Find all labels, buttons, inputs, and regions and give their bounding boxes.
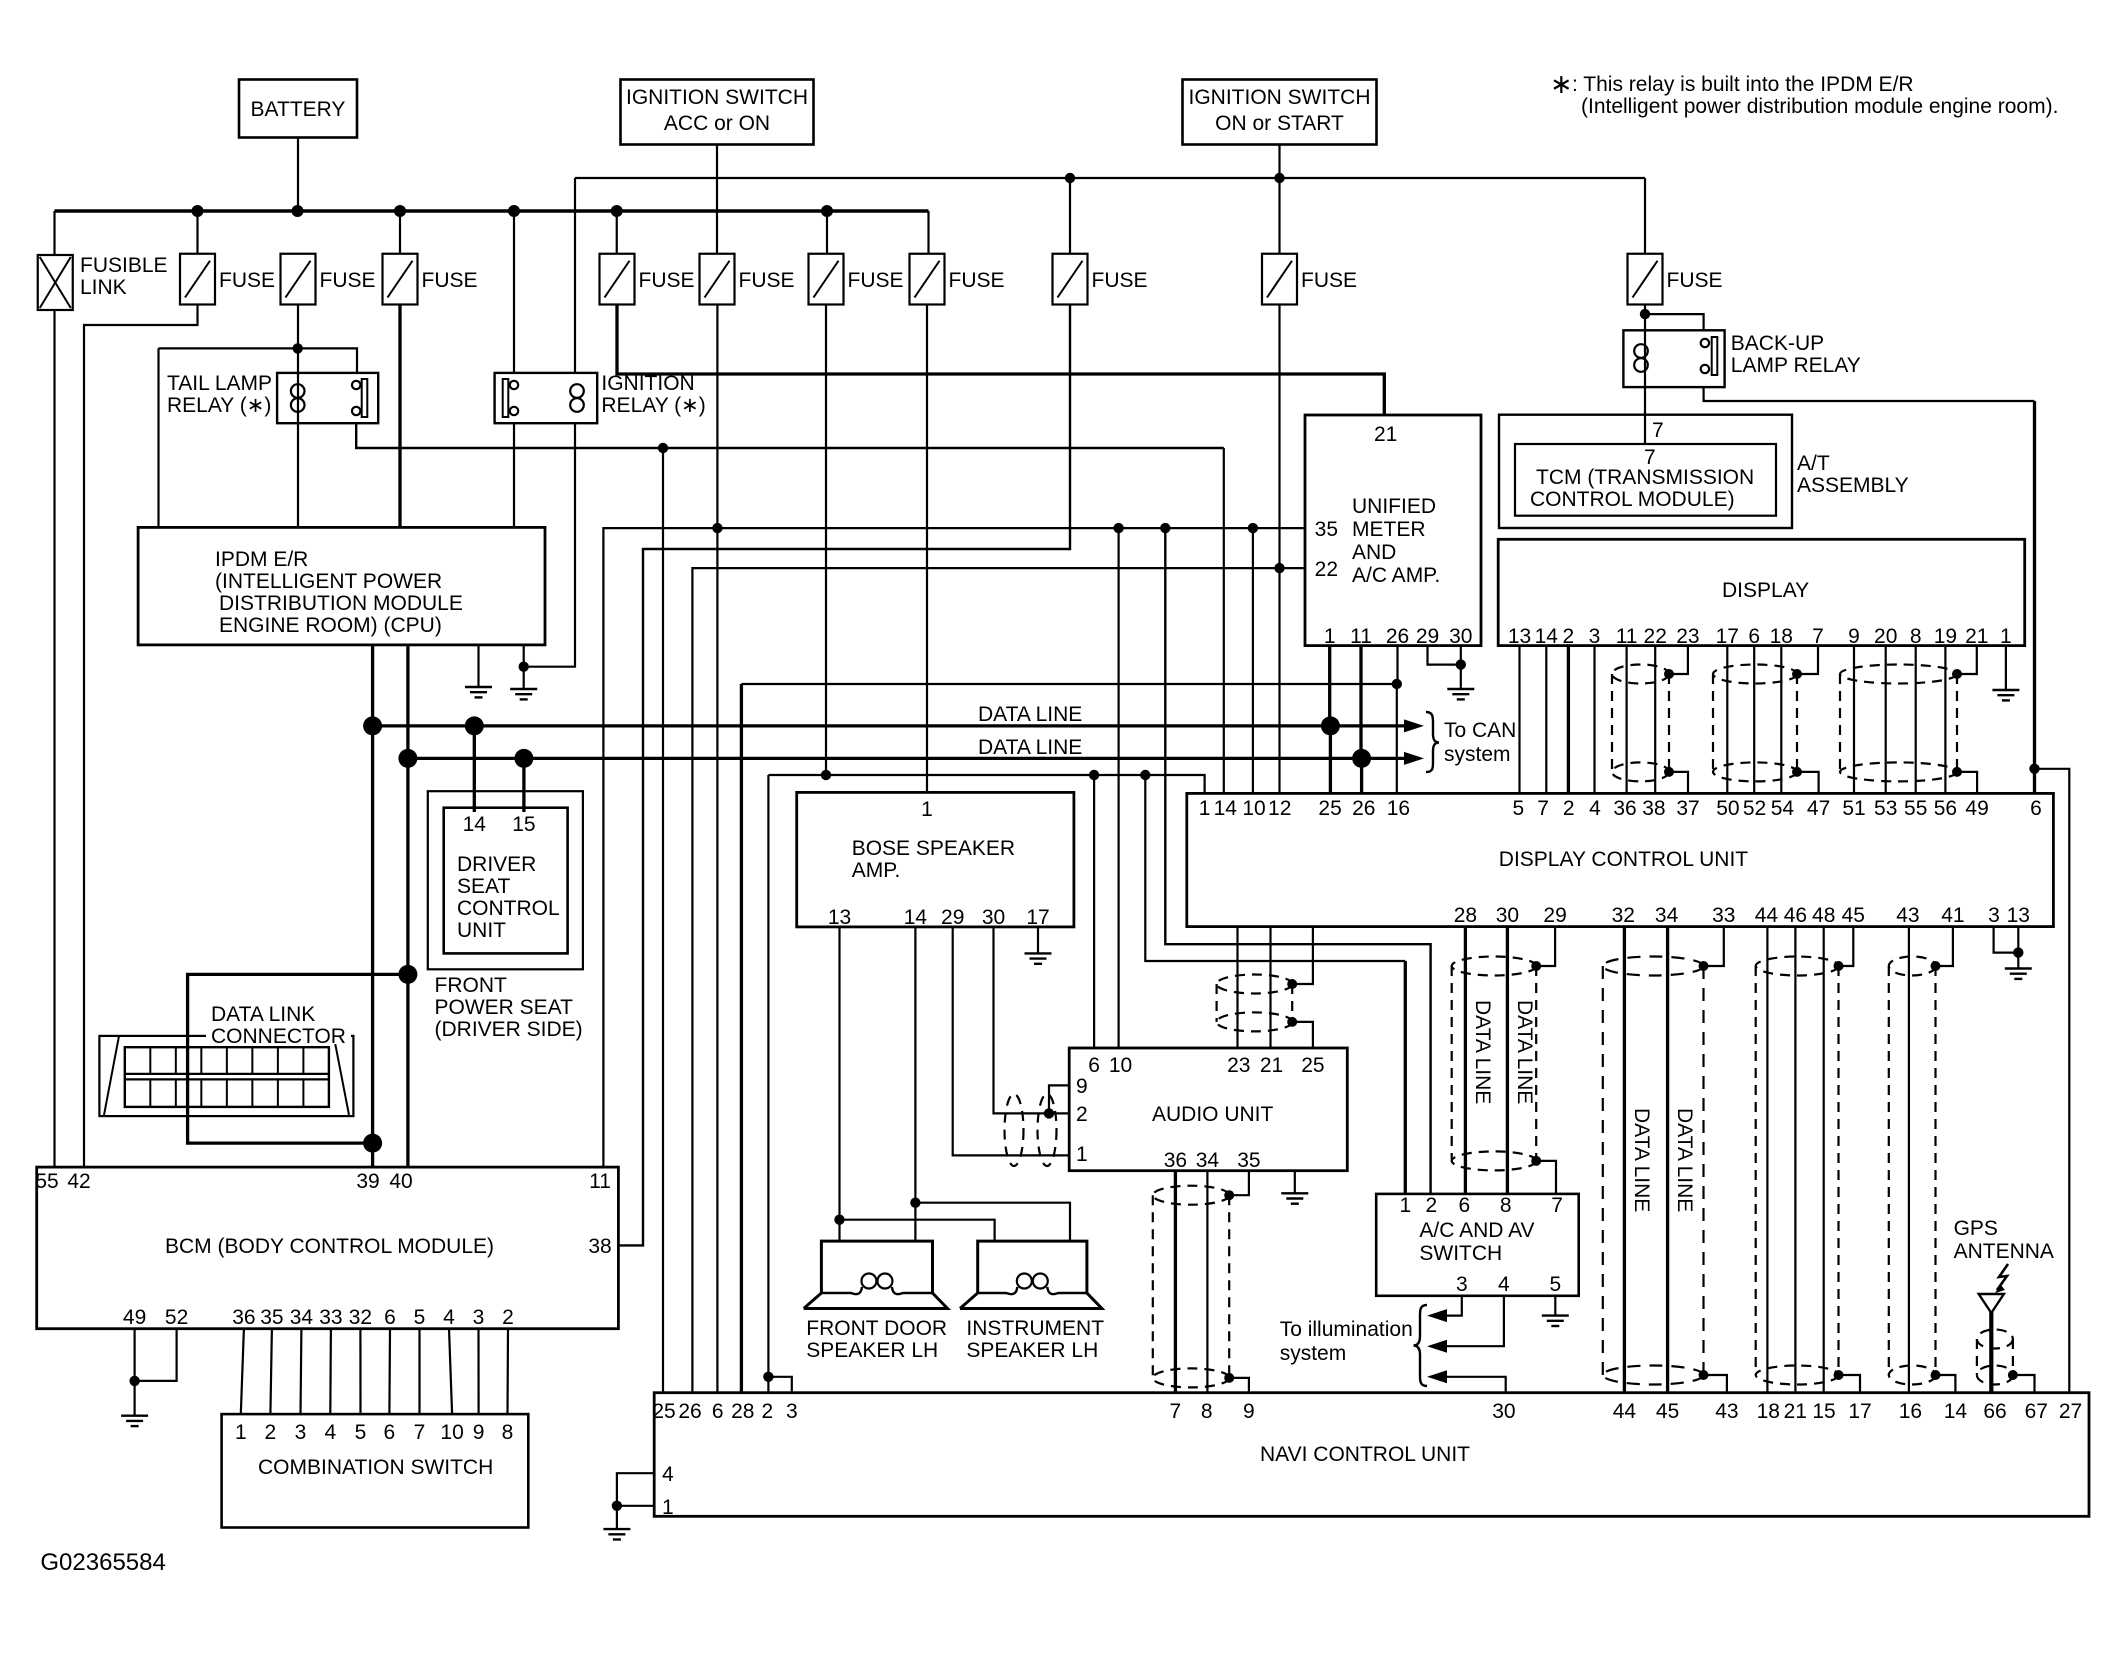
speaker INSTRUMENT SPEAKER LH xyxy=(960,1241,1102,1308)
svg-text:1: 1 xyxy=(2000,625,2012,648)
svg-text:FUSE: FUSE xyxy=(639,269,695,292)
shield DCU40/42 pair with drain DCU39 to AUDIO25 xyxy=(1217,975,1293,994)
relay tail lamp TAIL LAMP RELAY (*) xyxy=(277,373,378,423)
svg-text:6: 6 xyxy=(1748,625,1760,648)
box TCM (TRANSMISSION CONTROL MODULE) xyxy=(1515,444,1776,516)
wire DCU 42 to AUDIO 21 xyxy=(1269,927,1271,1048)
wire fuse F2 down through tail lamp relay coil to IPDM xyxy=(297,305,299,528)
svg-text:6: 6 xyxy=(712,1400,724,1423)
ground BOSE xyxy=(1025,953,1052,963)
svg-text:46: 46 xyxy=(1784,904,1807,927)
svg-text:9: 9 xyxy=(1848,625,1860,648)
svg-text:13: 13 xyxy=(1508,625,1531,648)
svg-text:38: 38 xyxy=(1642,797,1665,820)
wire DISPLAY 14 to DCU 7 xyxy=(1545,646,1547,794)
wire DISPLAY 3 to DCU 4 xyxy=(1593,646,1595,794)
svg-text:21: 21 xyxy=(1965,625,1988,648)
wire UNIFIED pin 1 to data line 1 (thick) xyxy=(1328,646,1331,726)
wire bus drop to fuse F3 xyxy=(399,211,401,254)
svg-text:IPDM E/R: IPDM E/R xyxy=(215,548,308,571)
svg-text:4: 4 xyxy=(1589,797,1601,820)
shield AUDIO36/34 with drain 35 to NAVI 9 xyxy=(1153,1186,1229,1205)
svg-text:43: 43 xyxy=(1896,904,1919,927)
wire branch to instrument speaker right xyxy=(915,1203,1070,1241)
box DISPLAY xyxy=(1498,539,2025,645)
arrow illumination 2 xyxy=(1427,1340,1447,1353)
svg-text:34: 34 xyxy=(1196,1149,1220,1172)
svg-text:TCM (TRANSMISSION: TCM (TRANSMISSION xyxy=(1536,466,1754,489)
wire supply rail drop to NAVI pins 2 and 3 xyxy=(767,775,769,1393)
svg-text:17: 17 xyxy=(1026,906,1049,929)
svg-text:8: 8 xyxy=(1201,1400,1213,1423)
svg-text:3: 3 xyxy=(473,1306,485,1329)
node tail lamp relay feed junction xyxy=(293,343,303,353)
wire DATA LINE 1 (CAN) to CAN system xyxy=(373,724,1405,727)
wire DCU 43 to NAVI 16 xyxy=(1908,927,1910,1393)
svg-text:19: 19 xyxy=(1934,625,1957,648)
svg-text:DISPLAY: DISPLAY xyxy=(1722,579,1809,602)
wire fuse F6 down to amp supply rail xyxy=(825,305,827,776)
svg-text:10: 10 xyxy=(1242,797,1265,820)
svg-text:FUSE: FUSE xyxy=(1092,269,1148,292)
svg-text:36: 36 xyxy=(1613,797,1636,820)
wire DCU 3 pin to ground join xyxy=(1994,927,2019,953)
svg-text:AMP.: AMP. xyxy=(852,859,901,882)
svg-text:: This relay is built into the: : This relay is built into the IPDM E/R xyxy=(1572,73,1914,96)
node data link connector loop junctions xyxy=(398,965,417,984)
svg-text:49: 49 xyxy=(1965,797,1988,820)
wire NAVI 30 to illumination xyxy=(1446,1377,1506,1393)
wire DISPLAY 18 to DCU 54 xyxy=(1780,646,1782,794)
svg-text:30: 30 xyxy=(1496,904,1519,927)
svg-text:DISPLAY CONTROL UNIT: DISPLAY CONTROL UNIT xyxy=(1499,848,1748,871)
svg-text:9: 9 xyxy=(1076,1075,1088,1098)
wire pin26 rail to NAVI pin 28 (thick drop) xyxy=(741,683,1396,685)
svg-text:39: 39 xyxy=(356,1170,379,1193)
wire DCU pin 26 from data line 2 (thick) xyxy=(1360,758,1363,793)
wires BCM to COMBINATION SWITCH xyxy=(241,1329,244,1414)
wire DCU pin 10 riser xyxy=(1252,528,1254,793)
svg-text:FUSE: FUSE xyxy=(320,269,376,292)
wire bus drop to fuse F1 xyxy=(196,211,198,254)
svg-text:1: 1 xyxy=(662,1496,674,1519)
wire BOSE pin 30 to AUDIO pin 2 xyxy=(994,927,1070,1114)
wire AUDIO 34 to NAVI 8 xyxy=(1206,1171,1208,1393)
svg-text:DATA LINE: DATA LINE xyxy=(978,736,1082,759)
svg-text:5: 5 xyxy=(1549,1273,1561,1296)
svg-text:5: 5 xyxy=(355,1421,367,1444)
wire fusible link down to BCM pin 55 xyxy=(53,310,55,1167)
svg-text:FUSE: FUSE xyxy=(739,269,795,292)
wire DCU 44 to NAVI 18 xyxy=(1766,927,1768,1393)
svg-text:66: 66 xyxy=(1983,1400,2006,1423)
svg-text:FUSE: FUSE xyxy=(1667,269,1723,292)
wire DISPLAY 6 to DCU 52 xyxy=(1753,646,1755,794)
svg-text:22: 22 xyxy=(1315,558,1338,581)
arrow illumination 3 xyxy=(1427,1370,1447,1383)
svg-text:17: 17 xyxy=(1716,625,1739,648)
svg-text:13: 13 xyxy=(2007,904,2030,927)
node speaker junction 13 xyxy=(834,1215,844,1225)
node tail lamp output junction to NAVI pin 25 xyxy=(658,443,668,453)
wire bus drop to fuse F6 xyxy=(826,211,828,254)
wire IPDM CAN-L to data line (thick) xyxy=(406,645,409,759)
svg-text:7: 7 xyxy=(414,1421,426,1444)
wire pin22 line from NAVI 26 riser xyxy=(692,568,1305,1393)
wire A/C-AV 4 to illumination xyxy=(1446,1296,1504,1346)
wire branch to back-up relay contact xyxy=(1645,314,1704,330)
svg-text:40: 40 xyxy=(389,1170,412,1193)
wire NAVI pin 1 to ground join xyxy=(617,1505,654,1507)
wire ON rail drop to fuse F9 xyxy=(1278,178,1280,254)
svg-text:1: 1 xyxy=(1400,1194,1412,1217)
svg-text:25: 25 xyxy=(652,1400,675,1423)
svg-text:ANTENNA: ANTENNA xyxy=(1954,1240,2054,1263)
box DRIVER SEAT CONTROL UNIT xyxy=(444,808,568,954)
wire back-up relay output to DISPLAY CONTROL UNIT pin 6 (thick) xyxy=(1704,387,2035,401)
brace to CAN system xyxy=(1426,712,1439,772)
node BCM 49/52 junction xyxy=(129,1376,139,1386)
svg-text:IGNITION SWITCH: IGNITION SWITCH xyxy=(1189,86,1371,109)
svg-text:DATA LINK: DATA LINK xyxy=(211,1003,315,1026)
svg-text:27: 27 xyxy=(2059,1400,2082,1423)
svg-text:26: 26 xyxy=(1386,625,1409,648)
wire ON rail drop to fuse F8 xyxy=(1069,178,1071,254)
node supply rail junctions xyxy=(821,770,831,780)
box IGNITION SWITCH ACC or ON xyxy=(621,80,814,145)
node battery bus junction dots xyxy=(192,205,204,217)
ground IPDM left xyxy=(465,687,492,697)
wire DISPLAY 9 to DCU 51 xyxy=(1853,646,1855,794)
svg-text:32: 32 xyxy=(349,1306,372,1329)
shield DISPLAY 17/6/18 with drain 7 to DCU 47 xyxy=(1713,665,1797,684)
svg-text:1: 1 xyxy=(921,798,933,821)
svg-text:6: 6 xyxy=(384,1421,396,1444)
svg-text:15: 15 xyxy=(512,813,535,836)
fuse F8 xyxy=(1053,254,1088,305)
svg-text:COMBINATION SWITCH: COMBINATION SWITCH xyxy=(258,1456,493,1479)
svg-text:AND: AND xyxy=(1352,541,1396,564)
svg-text:21: 21 xyxy=(1260,1054,1283,1077)
wire IPDM CAN-H to data line (thick) xyxy=(371,645,374,726)
wire supply branch to A/C AV switch pin 1 xyxy=(1145,775,1405,961)
svg-text:CONNECTOR: CONNECTOR xyxy=(211,1025,346,1048)
svg-text:4: 4 xyxy=(324,1421,336,1444)
ground A/C AND AV SWITCH xyxy=(1542,1316,1569,1326)
wire DCU 30 to A/C-AV 8 (thick) xyxy=(1506,927,1509,1194)
wire DISPLAY 8 to DCU 55 xyxy=(1915,646,1917,794)
svg-text:LINK: LINK xyxy=(80,276,127,299)
wire UNIFIED pin 29 jog to pin 30 ground xyxy=(1428,646,1461,665)
box BOSE SPEAKER AMP. xyxy=(797,792,1074,927)
arrow lightning bolt xyxy=(1997,1264,2008,1290)
svg-text:ENGINE ROOM) (CPU): ENGINE ROOM) (CPU) xyxy=(219,614,442,637)
wire DISPLAY 17 to DCU 50 xyxy=(1726,646,1728,794)
node shield drain junction xyxy=(1044,1108,1054,1118)
wire fuse F10 down to back-up lamp relay and TCM pin 7 xyxy=(1644,305,1646,445)
svg-text:DATA LINE: DATA LINE xyxy=(1471,1000,1494,1104)
node ACC junction on pin35 line xyxy=(712,523,722,533)
node DCU 3/13 ground junction xyxy=(2013,947,2023,957)
svg-text:(INTELLIGENT POWER: (INTELLIGENT POWER xyxy=(215,570,442,593)
svg-text:3: 3 xyxy=(1589,625,1601,648)
wire DISPLAY 22 to DCU 38 xyxy=(1654,646,1656,794)
svg-text:6: 6 xyxy=(2030,797,2042,820)
svg-text:2: 2 xyxy=(502,1306,514,1329)
svg-text:52: 52 xyxy=(1743,797,1766,820)
wire DATA LINE 2 (CAN) to CAN system xyxy=(408,757,1405,760)
ground DCU pins 3/13 xyxy=(2005,969,2032,979)
svg-text:33: 33 xyxy=(1712,904,1735,927)
wire BOSE pin 29 to AUDIO pin 1 xyxy=(953,927,1069,1156)
svg-text:14: 14 xyxy=(463,813,487,836)
svg-text:14: 14 xyxy=(1944,1400,1968,1423)
svg-text:18: 18 xyxy=(1770,625,1793,648)
wire AUDIO ground xyxy=(1294,1171,1296,1194)
svg-text:11: 11 xyxy=(1350,625,1372,648)
wire ignition relay contact to IPDM xyxy=(513,423,515,527)
svg-text:RELAY (∗): RELAY (∗) xyxy=(601,394,705,417)
svg-text:37: 37 xyxy=(1676,797,1699,820)
svg-text:45: 45 xyxy=(1842,904,1865,927)
svg-text:DATA LINE: DATA LINE xyxy=(978,703,1082,726)
wire DISPLAY 19 to DCU 56 xyxy=(1944,646,1946,794)
svg-text:BCM (BODY CONTROL MODULE): BCM (BODY CONTROL MODULE) xyxy=(165,1235,494,1258)
ground IPDM right xyxy=(510,689,537,699)
svg-text:system: system xyxy=(1444,743,1511,766)
svg-text:34: 34 xyxy=(290,1306,314,1329)
svg-text:SPEAKER LH: SPEAKER LH xyxy=(806,1339,938,1362)
svg-text:30: 30 xyxy=(1492,1400,1515,1423)
svg-text:2: 2 xyxy=(1076,1103,1088,1126)
svg-text:2: 2 xyxy=(761,1400,773,1423)
box NAVI CONTROL UNIT xyxy=(654,1393,2089,1517)
svg-text:TAIL LAMP: TAIL LAMP xyxy=(167,372,272,395)
brace to illumination system xyxy=(1414,1305,1428,1386)
svg-text:BACK-UP: BACK-UP xyxy=(1731,332,1824,355)
svg-text:21: 21 xyxy=(1784,1400,1807,1423)
wire DCU pin 10 drop from pin35 line to AUDIO pin 10 xyxy=(1117,528,1119,1048)
svg-text:12: 12 xyxy=(1268,797,1291,820)
box IGNITION SWITCH ON or START xyxy=(1183,80,1377,145)
svg-text:IGNITION SWITCH: IGNITION SWITCH xyxy=(626,86,808,109)
svg-text:30: 30 xyxy=(982,906,1005,929)
svg-text:7: 7 xyxy=(1652,419,1664,442)
svg-text:44: 44 xyxy=(1613,1400,1637,1423)
svg-text:18: 18 xyxy=(1757,1400,1780,1423)
svg-text:6: 6 xyxy=(384,1306,396,1329)
svg-text:14: 14 xyxy=(1214,797,1238,820)
svg-text:3: 3 xyxy=(786,1400,798,1423)
shield DISPLAY 9/20/8/19 with drain 21 to DCU 49 xyxy=(1840,665,1957,684)
wire A/C-AV 3 to illumination xyxy=(1446,1296,1462,1316)
svg-text:36: 36 xyxy=(1164,1149,1187,1172)
svg-text:48: 48 xyxy=(1812,904,1835,927)
svg-text:20: 20 xyxy=(1874,625,1897,648)
svg-text:BATTERY: BATTERY xyxy=(251,98,346,121)
wire tail lamp relay output xyxy=(356,423,1224,448)
svg-text:FUSE: FUSE xyxy=(219,269,275,292)
wire DCU 48 to NAVI 15 xyxy=(1823,927,1825,1393)
wire ON/START feed rail xyxy=(575,177,1645,179)
svg-text:34: 34 xyxy=(1655,904,1679,927)
wire UNIFIED pin 30 to ground xyxy=(1460,646,1462,689)
node back-up relay feed junction xyxy=(1640,309,1650,319)
svg-text:7: 7 xyxy=(1551,1194,1563,1217)
wire DCU pin 25 from data line 1 (thick) xyxy=(1329,726,1332,794)
svg-text:1: 1 xyxy=(235,1421,247,1444)
svg-text:4: 4 xyxy=(662,1463,674,1486)
arrow to CAN 1 xyxy=(1404,719,1424,732)
svg-text:25: 25 xyxy=(1301,1054,1324,1077)
svg-text:35: 35 xyxy=(1315,518,1338,541)
wire DCU 13 to ground xyxy=(2017,927,2019,969)
wire DISPLAY 2 to DCU 2 (thick) xyxy=(1567,646,1570,794)
fuse F7 xyxy=(910,254,945,305)
svg-text:DATA LINE: DATA LINE xyxy=(1630,1108,1653,1212)
wire DCU 28 to A/C-AV 6 (thick) xyxy=(1464,927,1467,1194)
svg-text:44: 44 xyxy=(1755,904,1779,927)
box DISPLAY CONTROL UNIT xyxy=(1187,793,2054,926)
wire DRIVER SEAT pin 14 stub (thick) xyxy=(473,726,476,812)
svg-text:1: 1 xyxy=(1324,625,1336,648)
svg-text:28: 28 xyxy=(1454,904,1477,927)
svg-text:4: 4 xyxy=(1498,1273,1510,1296)
svg-text:POWER SEAT: POWER SEAT xyxy=(435,996,574,1019)
wire branch to NAVI pin 27 xyxy=(2035,769,2070,1393)
svg-text:45: 45 xyxy=(1656,1400,1679,1423)
node ON rail junctions xyxy=(1065,173,1075,183)
shield audio input pair ellipses xyxy=(1005,1094,1024,1166)
svg-text:INSTRUMENT: INSTRUMENT xyxy=(966,1317,1104,1340)
wire UNIFIED pin 11 to data line 2 (thick) xyxy=(1359,646,1362,759)
shield DCU32/34 with drains DCU33 and NAVI43 xyxy=(1603,957,1704,976)
node back-up signal junction to NAVI pin 27 xyxy=(2029,764,2039,774)
wire branch to NAVI pin 3 xyxy=(768,1377,791,1393)
svg-text:7: 7 xyxy=(1537,797,1549,820)
wire ACC switch down to fuse F5 xyxy=(716,145,718,254)
svg-text:10: 10 xyxy=(1109,1054,1132,1077)
svg-text:26: 26 xyxy=(678,1400,701,1423)
svg-text:14: 14 xyxy=(1535,625,1559,648)
svg-text:5: 5 xyxy=(1512,797,1524,820)
svg-text:9: 9 xyxy=(1243,1400,1255,1423)
wire ON rail right drop to fuse F10 xyxy=(1644,178,1646,254)
svg-text:16: 16 xyxy=(1899,1400,1922,1423)
wire branch to instrument speaker left xyxy=(840,1220,995,1241)
svg-text:51: 51 xyxy=(1842,797,1865,820)
wire BCM 52 to junction xyxy=(135,1329,177,1381)
wire AUDIO pin 9 shield drain xyxy=(1049,1085,1069,1113)
svg-text:54: 54 xyxy=(1771,797,1795,820)
svg-text:DATA LINE: DATA LINE xyxy=(1673,1108,1696,1212)
wire A/C-AV 5 to ground xyxy=(1554,1296,1556,1316)
svg-text:FUSE: FUSE xyxy=(422,269,478,292)
svg-text:FUSE: FUSE xyxy=(949,269,1005,292)
relay ignition IGNITION RELAY (*) xyxy=(495,373,598,423)
box A/C AND AV SWITCH xyxy=(1376,1194,1579,1296)
svg-text:SWITCH: SWITCH xyxy=(1419,1242,1502,1265)
svg-text:FUSE: FUSE xyxy=(848,269,904,292)
svg-text:RELAY (∗): RELAY (∗) xyxy=(167,394,271,417)
shield GPS antenna with drain NAVI 67 xyxy=(1977,1330,2013,1349)
box A/T ASSEMBLY outer xyxy=(1499,415,1792,528)
power bus wire (battery feed) xyxy=(55,209,929,213)
wire AUDIO 36 to NAVI 7 (thick) xyxy=(1174,1171,1177,1393)
wire bus drop to ignition relay contact xyxy=(513,211,515,373)
svg-text:11: 11 xyxy=(1616,625,1638,648)
wire fuse F9 down to DISPLAY CONTROL UNIT pin 12 xyxy=(1278,305,1280,794)
fuse F6 xyxy=(809,254,844,305)
node F9 junction on pin22 line xyxy=(1274,563,1284,573)
node ignition relay coil ground junction xyxy=(519,662,529,672)
shield DCU43 with drains DCU41 and NAVI14 xyxy=(1889,957,1936,976)
shield DCU44/46/48 with drains DCU45 and NAVI17 xyxy=(1756,957,1839,976)
svg-text:16: 16 xyxy=(1387,797,1410,820)
wire ignition relay coil to ground join xyxy=(524,423,575,667)
svg-text:15: 15 xyxy=(1812,1400,1835,1423)
wire DCU 40 to AUDIO 23 xyxy=(1236,927,1238,1048)
svg-text:49: 49 xyxy=(123,1306,146,1329)
wire IPDM top-left feed xyxy=(159,347,298,349)
svg-text:29: 29 xyxy=(941,906,964,929)
fuse F2 xyxy=(281,254,316,305)
svg-text:DISTRIBUTION MODULE: DISTRIBUTION MODULE xyxy=(219,592,463,615)
wire DISPLAY 20 to DCU 53 xyxy=(1885,646,1887,794)
svg-text:METER: METER xyxy=(1352,518,1426,541)
svg-text:To illumination: To illumination xyxy=(1280,1318,1413,1341)
wire drop to NAVI pin 25 xyxy=(662,448,664,1393)
svg-text:(Intelligent power distributio: (Intelligent power distribution module e… xyxy=(1581,95,2058,118)
svg-text:ACC or ON: ACC or ON xyxy=(664,112,770,135)
svg-text:28: 28 xyxy=(731,1400,754,1423)
svg-text:21: 21 xyxy=(1374,423,1397,446)
wire DISPLAY 1 to ground xyxy=(2005,646,2007,690)
svg-text:29: 29 xyxy=(1416,625,1439,648)
svg-text:38: 38 xyxy=(588,1235,611,1258)
wire fuse F3 down to IPDM (thick) xyxy=(398,305,401,528)
svg-text:UNIT: UNIT xyxy=(457,919,506,942)
svg-text:5: 5 xyxy=(414,1306,426,1329)
node pin35 line junctions xyxy=(1113,523,1123,533)
svg-text:29: 29 xyxy=(1543,904,1566,927)
svg-text:2: 2 xyxy=(1563,625,1575,648)
svg-text:FUSIBLE: FUSIBLE xyxy=(80,254,168,277)
svg-text:8: 8 xyxy=(1910,625,1922,648)
svg-text:67: 67 xyxy=(2025,1400,2048,1423)
svg-text:2: 2 xyxy=(1563,797,1575,820)
wire BCM 39 data line drop (thick) xyxy=(371,726,374,1167)
wire BCM 49 to ground xyxy=(134,1329,136,1416)
svg-text:6: 6 xyxy=(1088,1054,1100,1077)
wire amp supply rail to DCU pin 1 xyxy=(768,775,1204,793)
box BCM (BODY CONTROL MODULE) xyxy=(37,1167,619,1329)
svg-text:55: 55 xyxy=(35,1170,58,1193)
box IPDM E/R (INTELLIGENT POWER DISTRIBUTION MODULE ENGINE ROOM) (CPU) xyxy=(138,527,545,645)
wire fuse F7 down to BOSE pin 1 xyxy=(926,305,928,793)
svg-text:G02365584: G02365584 xyxy=(40,1549,165,1576)
wire fuse F4 to UNIFIED METER pin 21 (thick) xyxy=(617,305,1384,416)
svg-text:8: 8 xyxy=(502,1421,514,1444)
wire drop to DISPLAY CONTROL UNIT pin 14 xyxy=(1223,448,1225,793)
svg-text:25: 25 xyxy=(1318,797,1341,820)
node pin26 rail junction xyxy=(1392,679,1402,689)
svg-text:2: 2 xyxy=(1426,1194,1438,1217)
wire BOSE pin 13 to front door speaker xyxy=(838,927,840,1241)
wire GPS coax to NAVI 66 (thick) xyxy=(1989,1311,1993,1393)
svg-text:ASSEMBLY: ASSEMBLY xyxy=(1797,474,1909,497)
wire IPDM ground pin left xyxy=(477,645,479,687)
